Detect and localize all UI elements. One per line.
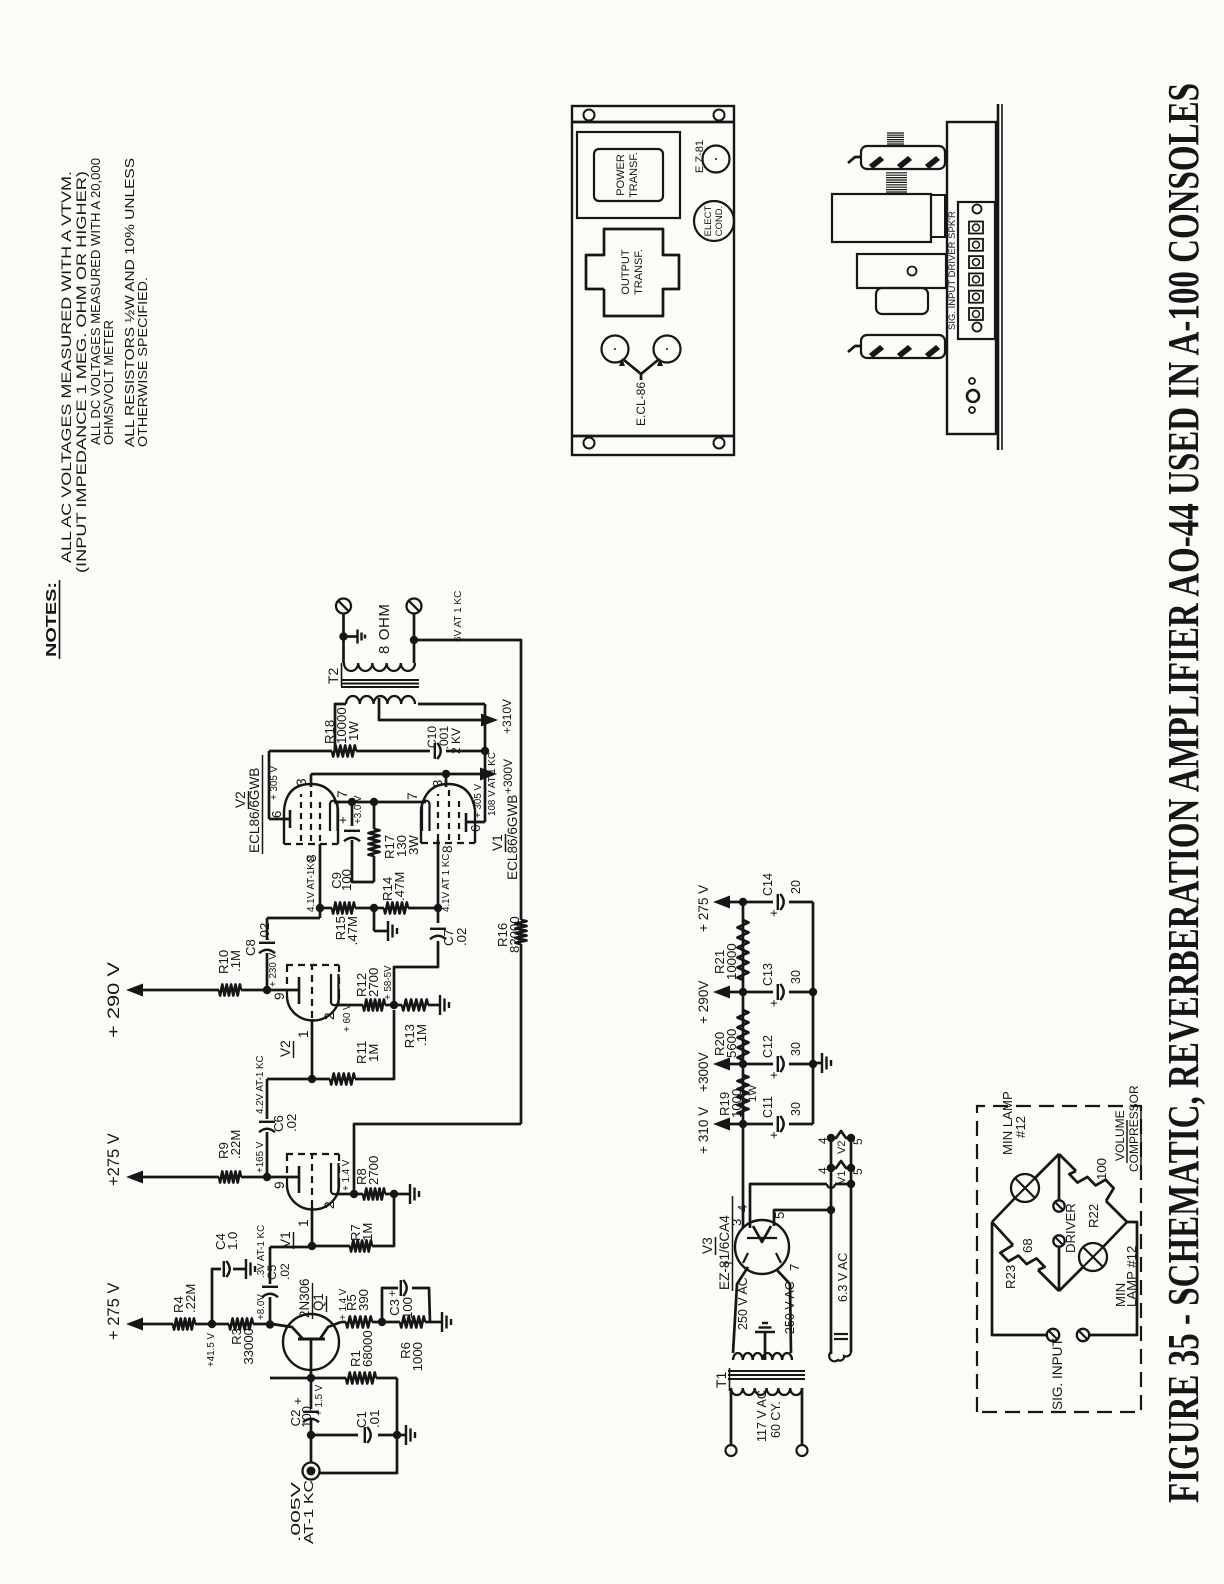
node secondary ground tee [339, 632, 347, 640]
svg-text:T2: T2 [325, 667, 341, 684]
svg-text:1: 1 [296, 1030, 311, 1038]
resistor R4 [171, 1284, 198, 1330]
svg-text:E.CL-86: E.CL-86 [634, 382, 648, 426]
tube V3 rectifier [721, 1205, 802, 1274]
resistor R14 [374, 872, 438, 914]
svg-text:7: 7 [787, 1264, 802, 1271]
svg-text:1.0: 1.0 [225, 1232, 240, 1250]
node +300V rail junction [739, 1060, 747, 1068]
svg-text:8: 8 [304, 854, 319, 862]
svg-text:.02: .02 [257, 923, 272, 941]
svg-text:+165 V: +165 V [255, 1141, 266, 1173]
capacitor C5 [262, 1247, 292, 1297]
capacitor C3 [385, 1280, 415, 1319]
label +1.4V cathode V1 [341, 1159, 352, 1191]
label SIG INPUT DRIVER SPKR [947, 211, 958, 330]
svg-text:+: + [766, 1071, 781, 1079]
resistor R19 [717, 1075, 759, 1118]
wire secondary to bottom terminal [413, 614, 416, 663]
terminal strip screws [969, 222, 983, 321]
wire bridge arm lamp1 [992, 1154, 1059, 1222]
resistor R3 [229, 1319, 256, 1365]
svg-text:1M: 1M [366, 1044, 381, 1062]
transformer T1 primary [731, 1388, 802, 1395]
ground at C4 [246, 1259, 255, 1279]
resistor R22 [1069, 1158, 1113, 1228]
wire V3 heater pin 5 [774, 1206, 835, 1226]
wire bridge arm R23 [992, 1222, 1059, 1291]
label DRIVER [1063, 1203, 1078, 1253]
wire bridge arm R22 [1059, 1154, 1127, 1222]
side view pilot hole small lower [969, 407, 975, 413]
terminal driver right [1053, 1200, 1064, 1211]
svg-text:C8: C8 [243, 939, 258, 956]
svg-text:NOTES:: NOTES: [43, 582, 60, 657]
label +8.0V collector node [256, 1294, 267, 1320]
power arrow +310V [481, 699, 514, 734]
tube V2 pentode [269, 778, 350, 862]
label MIN LAMP #12 lower [1113, 1246, 1139, 1307]
svg-text:ECL86/6GWB: ECL86/6GWB [247, 768, 262, 853]
svg-text:30: 30 [789, 1042, 803, 1056]
svg-text:C12: C12 [761, 1035, 775, 1058]
wire jack to C2 [310, 1421, 313, 1463]
resistor R1 [346, 1330, 376, 1383]
title FIGURE 35 [1159, 83, 1208, 1503]
svg-text:100: 100 [299, 1406, 314, 1428]
wire C4 branch [212, 1269, 246, 1324]
svg-text:COMPRESSOR: COMPRESSOR [1127, 1085, 1141, 1172]
wire V1 pentode screen stem [430, 774, 446, 787]
wire sig input left leg [992, 1222, 1046, 1335]
svg-text:C11: C11 [761, 1096, 775, 1118]
svg-text:.47M: .47M [345, 916, 360, 945]
svg-text:V3: V3 [700, 1237, 715, 1254]
wire heater bus A [830, 1138, 833, 1354]
resistor R5 [344, 1289, 372, 1328]
note 3 line 1 [122, 158, 137, 447]
svg-text:C14: C14 [761, 873, 775, 896]
ground at C1 [397, 1425, 415, 1445]
label +305V (V2) [269, 765, 280, 800]
svg-text:82000: 82000 [507, 916, 522, 953]
svg-text:C5: C5 [265, 1264, 279, 1280]
svg-text:+: + [290, 1397, 305, 1405]
power arrow tap +310V [696, 1107, 743, 1154]
wire V2 pentode screen stem [310, 774, 313, 787]
chassis screw bottom-left [714, 438, 725, 449]
power arrow +275V (V1) [105, 1133, 143, 1186]
chassis screw bottom-right [714, 110, 725, 121]
svg-text:TRANSF.: TRANSF. [628, 152, 640, 198]
svg-text:+275 V: +275 V [105, 1133, 123, 1186]
svg-text:2N306: 2N306 [297, 1279, 312, 1318]
tube V1 triode [267, 1154, 355, 1227]
heater filament V2 [816, 1131, 865, 1154]
lamp MIN LAMP #12 lower [1079, 1243, 1107, 1271]
chassis top view outline [572, 106, 734, 455]
svg-text:4: 4 [735, 1205, 750, 1212]
tube ECL86 socket lower [654, 336, 681, 363]
label +165V [255, 1141, 266, 1173]
svg-text:6.3 V AC: 6.3 V AC [836, 1253, 850, 1302]
label 117V AC 60 CY [755, 1390, 783, 1442]
svg-text:C13: C13 [761, 963, 775, 986]
side view transformer strap left [848, 335, 945, 358]
svg-text:1000: 1000 [410, 1342, 425, 1371]
svg-text:8: 8 [440, 845, 455, 853]
wire V1 grid [311, 1207, 314, 1246]
volume compressor dashed box [977, 1106, 1141, 1412]
side view laminations right [887, 133, 904, 144]
node heater pin4 junction [847, 1180, 855, 1188]
svg-text:6: 6 [269, 811, 284, 818]
svg-text:T1: T1 [713, 1371, 729, 1388]
node feedback tap [410, 636, 418, 644]
transformer T1 secondary [733, 1353, 792, 1360]
svg-text:9: 9 [272, 1181, 287, 1189]
svg-text:ALL AC VOLTAGES MEASURED WIT: ALL AC VOLTAGES MEASURED WITH A VTVM. [59, 171, 75, 563]
svg-text:ECL86/6GWB: ECL86/6GWB [505, 795, 520, 880]
side view output transformer body [857, 254, 946, 314]
svg-text:60 CY.: 60 CY. [769, 1401, 783, 1438]
output transformer outline [586, 229, 679, 316]
svg-text:EZ-81/6CA4: EZ-81/6CA4 [717, 1215, 732, 1290]
transformer T2 primary [346, 696, 415, 704]
resistor R13 [394, 1000, 434, 1049]
wire V3 plate 1 to T1 [733, 1267, 748, 1353]
terminal driver left [1053, 1235, 1064, 1246]
wire C1 branch [311, 1434, 397, 1437]
wire V3 plate 7 to T1 [776, 1269, 791, 1353]
svg-text:+ 230 V: + 230 V [268, 952, 279, 987]
tube V1 pentode [405, 784, 485, 853]
svg-text:SIG. INPUT DRIVER SPK'R: SIG. INPUT DRIVER SPK'R [947, 211, 958, 330]
power arrow +275V (Q1) [105, 1283, 143, 1340]
terminal sig input lower [1077, 1329, 1089, 1341]
svg-text:AT-1 KC: AT-1 KC [302, 1480, 316, 1544]
svg-text:+ 290 V: + 290 V [105, 962, 123, 1038]
node R15/R14/R17 junction [370, 904, 378, 912]
svg-text:E.Z-81: E.Z-81 [694, 140, 706, 173]
svg-text:OTHERWISE SPECIFIED.: OTHERWISE SPECIFIED. [135, 277, 150, 447]
svg-text:7: 7 [335, 790, 350, 798]
lamp MIN LAMP #12 upper [1011, 1174, 1039, 1202]
svg-text:+ 310 V: + 310 V [696, 1107, 711, 1154]
svg-text:30: 30 [789, 970, 803, 984]
svg-text:+: + [385, 1290, 399, 1297]
svg-text:.01: .01 [367, 1410, 382, 1428]
ground at T1 center tap [755, 1323, 775, 1360]
wire T2 primary top arm [335, 704, 346, 751]
svg-text:108 V AT 1 KC: 108 V AT 1 KC [487, 752, 498, 816]
capacitor C2 [288, 1378, 325, 1428]
power arrow tap +290V [696, 981, 743, 1024]
svg-text:6: 6 [468, 825, 483, 832]
label SIG. INPUT [1050, 1338, 1065, 1410]
note 1 line 1 [59, 171, 75, 563]
svg-text:OHMS/VOLT METER: OHMS/VOLT METER [101, 320, 116, 445]
label MIN LAMP #12 upper [1000, 1091, 1028, 1155]
resistor R9 [216, 1130, 243, 1183]
resistor R6 [398, 1317, 425, 1372]
capacitor C10 [425, 726, 485, 759]
node Q1 collector [266, 1320, 274, 1328]
svg-text:V2: V2 [836, 1141, 848, 1154]
svg-text:1000: 1000 [729, 1089, 744, 1118]
label +60V cathode V2 [342, 1003, 353, 1032]
label 4.2V AT-1KC [255, 1055, 266, 1114]
svg-text:+ 60 V: + 60 V [342, 1003, 353, 1032]
wire V1 pentode plate line [418, 704, 485, 822]
label +1.4V emitter [338, 1288, 349, 1320]
node V1 pentode grid junction [434, 904, 442, 912]
svg-text:4: 4 [816, 1167, 830, 1174]
label +230V [268, 952, 279, 987]
label T2 [325, 663, 342, 686]
label 250V AC lower [783, 1281, 797, 1334]
svg-text:+ 290V: + 290V [696, 981, 711, 1024]
svg-text:+ 275 V: + 275 V [105, 1283, 123, 1340]
node C2/C1 junction [307, 1431, 315, 1439]
resistor R21 [712, 920, 749, 980]
svg-text:68000: 68000 [360, 1330, 375, 1367]
ground at grid return [374, 921, 397, 941]
wire +300V screen bus [311, 773, 491, 776]
svg-text:117 V AC: 117 V AC [755, 1390, 769, 1442]
ground at V1 cathode [394, 1184, 419, 1204]
capacitor C7 [430, 928, 469, 946]
svg-text:.005V: .005V [289, 1481, 303, 1542]
svg-text:2: 2 [322, 1012, 337, 1020]
transistor Q1 [272, 1279, 341, 1370]
svg-text:.3V AT-1 KC: .3V AT-1 KC [256, 1225, 267, 1278]
wire C3 bypass loop [382, 1288, 430, 1322]
wire ground branch of grid return [373, 908, 376, 931]
resistor R16 [495, 916, 527, 953]
svg-text:4: 4 [816, 1137, 830, 1144]
wire T2 center tap to +310V [379, 698, 492, 720]
wire C5 corner to V1 grid [270, 1246, 312, 1249]
svg-text:2: 2 [322, 1201, 337, 1209]
svg-text:2700: 2700 [366, 1156, 381, 1185]
label EZ-81 [694, 140, 706, 173]
power arrow +300V [480, 759, 515, 794]
svg-text:+ 1.4 V: + 1.4 V [341, 1159, 352, 1191]
wire V2 pentode plate riser [269, 751, 332, 819]
svg-text:V1: V1 [836, 1171, 848, 1184]
wire B+ rail [742, 902, 745, 1228]
wire V2 grid [311, 1019, 314, 1079]
svg-text:.22M: .22M [183, 1284, 198, 1313]
power arrow tap +300V [696, 1052, 743, 1092]
svg-text:250 V AC: 250 V AC [736, 1277, 750, 1330]
power transformer outline [577, 132, 680, 218]
svg-text:250 V AC: 250 V AC [783, 1281, 797, 1334]
resistor R18 [322, 707, 430, 756]
svg-text:DRIVER: DRIVER [1063, 1203, 1078, 1253]
capacitor C14 [743, 873, 813, 917]
ground at speaker terminal [344, 630, 366, 644]
svg-text:3: 3 [294, 778, 309, 786]
wire C7 path from V2 cathode [394, 911, 438, 1005]
node C1/ground junction [393, 1431, 401, 1439]
capacitor C12 [743, 1035, 813, 1079]
svg-text:30: 30 [789, 1102, 803, 1116]
node R8/R7/ground junction [390, 1190, 398, 1198]
svg-text:.1M: .1M [414, 1024, 429, 1046]
chassis screw top-right [584, 110, 595, 121]
label +305V (V1) [473, 783, 484, 818]
svg-text:.1M: .1M [228, 950, 243, 972]
wire bridge arm lamp2 [1059, 1222, 1127, 1291]
resistor R11 [312, 1010, 394, 1085]
label 4.1V AT-1KC upper [306, 856, 317, 912]
terminal T1 primary lower [797, 1445, 808, 1456]
label ELECT COND [703, 205, 725, 236]
svg-text:ELECT: ELECT [703, 205, 714, 236]
label NOTES heading [43, 580, 60, 659]
node +290V rail junction [739, 988, 747, 996]
svg-text:100: 100 [400, 1297, 415, 1319]
svg-text:+3.0 V: +3.0 V [353, 795, 364, 824]
svg-text:+8.0V: +8.0V [256, 1294, 267, 1320]
node V1 grid junction [308, 1242, 316, 1250]
label +58.5V [383, 965, 394, 1000]
svg-text:33000: 33000 [241, 1328, 256, 1365]
capacitor C11 [743, 1096, 813, 1139]
svg-text:+: + [766, 999, 781, 1007]
power arrow +290V (V2) [105, 962, 143, 1038]
resistor R8 [354, 1156, 394, 1200]
svg-text:390: 390 [356, 1289, 371, 1311]
transformer T2 secondary [344, 663, 415, 671]
svg-text:100: 100 [1094, 1158, 1109, 1180]
svg-text:#12: #12 [1013, 1116, 1028, 1138]
ground at R13 [434, 995, 449, 1015]
svg-text:VOLUME: VOLUME [1113, 1110, 1127, 1161]
side view transformer strap right [848, 146, 945, 169]
svg-text:+ 58-5V: + 58-5V [383, 965, 394, 1000]
node +310V rail junction [739, 1120, 747, 1128]
wire V3 heater pin 4 [750, 1184, 851, 1228]
wire Q1 collector to C5 [269, 1297, 272, 1325]
svg-text:OUTPUT: OUTPUT [620, 249, 632, 295]
svg-text:1: 1 [296, 1219, 311, 1227]
node R15 tee [316, 904, 324, 912]
svg-text:.02: .02 [454, 928, 469, 946]
wire V1 pentode grid line [437, 840, 440, 908]
ground at R6/C3 [431, 1312, 451, 1332]
wire R9 to plate node [241, 1176, 267, 1179]
node +275V rail junction [739, 898, 747, 906]
wire pentode cathode rail [334, 801, 419, 804]
label V1 [278, 1231, 294, 1249]
svg-text:POWER: POWER [615, 154, 627, 196]
wire Q1 base rail [270, 1374, 397, 1432]
node V2 plate [263, 986, 271, 994]
ground at filter bus [813, 1053, 831, 1073]
node V2 cathode junction [390, 1001, 398, 1009]
svg-text:68: 68 [1020, 1238, 1035, 1253]
side view pilot hole large [967, 390, 979, 402]
resistor R15 [320, 903, 374, 946]
wire T1 primary leads [731, 1388, 802, 1445]
wire feedback loop [354, 640, 521, 1194]
svg-text:TRANSF.: TRANSF. [633, 249, 645, 295]
label .3V AT-1KC [256, 1225, 267, 1278]
side view laminations middle [886, 173, 907, 192]
svg-text:+ 1.5 V: + 1.5 V [314, 1384, 325, 1416]
svg-text:7: 7 [405, 792, 420, 800]
wire V2 pentode grid line [319, 844, 322, 918]
wire driver branch right [1058, 1154, 1061, 1200]
svg-text:4.1V AT 1 KC: 4.1V AT 1 KC [441, 854, 452, 912]
heater filament V1 [816, 1161, 865, 1184]
svg-text:1M: 1M [360, 1223, 375, 1241]
svg-text:2700: 2700 [366, 968, 381, 997]
svg-text:.22M: .22M [228, 1130, 243, 1159]
svg-text:4.2V AT-1 KC: 4.2V AT-1 KC [255, 1055, 266, 1114]
svg-text:3W: 3W [406, 835, 421, 855]
resistor R23 [1000, 1238, 1044, 1289]
resistor R7 [312, 1198, 394, 1252]
svg-text:FIGURE 35 - SCHEMATIC, REVERB: FIGURE 35 - SCHEMATIC, REVERBERATION AMP… [1159, 83, 1208, 1503]
label 6.3V AC [836, 1253, 850, 1302]
label OUTPUT TRANSF [620, 249, 645, 295]
svg-text:5: 5 [851, 1138, 865, 1145]
svg-text:6V AT 1 KC: 6V AT 1 KC [453, 591, 464, 642]
capacitor heater bus bypass [834, 1334, 848, 1339]
resistor R17 [369, 802, 422, 882]
wire jack shield return [320, 1439, 397, 1473]
wire heater bus B [850, 1138, 853, 1352]
node V1 screen tee [442, 770, 450, 778]
capacitor C1 [354, 1410, 382, 1443]
wire C8 from V2 plate [266, 953, 269, 990]
label V2 pentode [233, 755, 263, 854]
svg-text:.02: .02 [278, 1263, 292, 1280]
capacitor C13 [743, 963, 813, 1007]
svg-text:9: 9 [272, 992, 287, 1000]
tube V2 triode [267, 965, 355, 1038]
label V1 pentode [490, 782, 521, 881]
svg-text:+ 305 V: + 305 V [269, 765, 280, 800]
wire +290V to R10 [131, 989, 219, 992]
wire secondary to top terminal [342, 614, 345, 663]
svg-text:Q1: Q1 [311, 1293, 326, 1311]
svg-text:100: 100 [339, 869, 354, 891]
tube ECL86 socket upper [602, 336, 629, 363]
svg-text:+ 1.4 V: + 1.4 V [338, 1288, 349, 1320]
wire Q1 base stem [310, 1339, 313, 1378]
label +41.5V [206, 1332, 217, 1367]
node V1 plate [263, 1173, 271, 1181]
svg-text:+ 305 V: + 305 V [473, 783, 484, 818]
svg-text:+: + [766, 909, 781, 917]
resistor R10 [216, 950, 267, 996]
wire filter ground bus [809, 902, 817, 1124]
svg-text:V2: V2 [278, 1040, 293, 1057]
side view terminal strip [958, 202, 995, 339]
note 1 line 2 [74, 171, 90, 573]
note 3 line 2 [135, 277, 150, 447]
label POWER TRANSF [615, 152, 640, 198]
transformer T1 core [728, 1371, 805, 1379]
label T1 [713, 1368, 730, 1391]
chassis side view panel [947, 104, 1002, 450]
side view power transformer body [832, 194, 945, 242]
